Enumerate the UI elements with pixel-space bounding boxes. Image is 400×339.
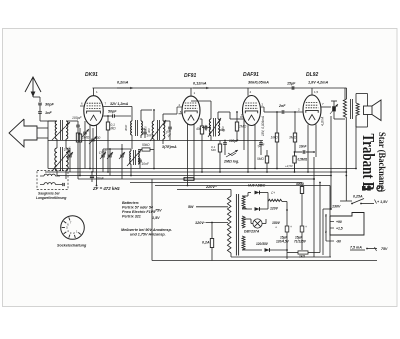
antenna [25,77,41,92]
wire [230,118,244,120]
anode supply rail [93,87,346,89]
AVC wire [211,140,263,142]
output transformer secondary [356,103,359,116]
connector symbols [362,186,366,191]
wire right side [376,249,378,261]
bus wire 2 [45,171,346,173]
wire DAF91 fil b [254,125,256,169]
svg-text:2MΩ log.: 2MΩ log. [223,160,239,164]
svg-text:Pertrix 321: Pertrix 321 [122,215,141,219]
wire DAF91 anode [247,88,249,96]
wire [48,120,57,122]
svg-text:2nF: 2nF [278,104,286,108]
diode D2 [255,207,260,211]
svg-text:4,2mA: 4,2mA [321,117,325,126]
wire [65,170,67,179]
wire [66,120,78,122]
svg-text:1MΩ: 1MΩ [271,136,279,140]
svg-text:50kΩ: 50kΩ [142,143,150,147]
pin 5 [179,113,183,115]
pin 7 DL92 [321,106,331,108]
wire DK91 anode [93,88,95,96]
bus wire 5 [130,182,302,184]
pin 7 wire 32V [103,106,130,108]
wire antenna down [39,97,41,102]
wire battery left [325,214,327,241]
wire speaker top [355,94,357,104]
tube DL92 [303,95,321,125]
svg-text:0,2mA: 0,2mA [117,81,129,85]
resistor 1MΩ out [275,133,278,142]
svg-text:7,5 mA: 7,5 mA [350,246,362,250]
resistor 0,1MΩ det [218,144,221,152]
svg-text:120V~: 120V~ [195,221,207,225]
wire [39,114,41,122]
svg-text:C+: C+ [271,191,275,195]
svg-text:Pneu Electric F1P5: Pneu Electric F1P5 [122,210,156,214]
trimmer arrow T3 [208,118,221,137]
svg-text:75V: 75V [381,247,388,251]
pin 2 wire [103,115,112,117]
capacitor 15µF [291,86,293,90]
wire feed b [329,186,331,258]
pin 7 DAF91 [240,116,243,118]
battery terminal +1,5 [330,227,334,229]
capacitor 10nF g [302,150,304,154]
bus wire 4 [78,178,314,180]
oscillator coil [130,151,131,164]
wire DAF91 fil a [247,125,249,172]
fuse element [184,177,194,180]
svg-text:1,5V: 1,5V [152,216,160,220]
AVC long wire [48,140,211,142]
svg-text:100pF: 100pF [72,116,83,120]
svg-text:5W: 5W [188,205,194,209]
wire DF91 fil a [187,124,189,186]
svg-text:Trabant B: Trabant B [359,134,378,191]
svg-text:130V: 130V [332,205,341,209]
svg-text:DAF91: DAF91 [243,72,259,78]
transformer sec 3 [242,236,245,250]
svg-text:Saugkreis bei: Saugkreis bei [38,192,60,196]
svg-text:30pF: 30pF [45,103,55,107]
svg-text:3MΩ: 3MΩ [289,136,297,140]
transformer core [350,99,352,119]
svg-text:120/35V: 120/35V [256,242,269,246]
svg-text:10nF: 10nF [142,162,150,166]
resistor 0,5MΩ [293,156,296,163]
svg-text:HU8 7,5B/C: HU8 7,5B/C [248,184,266,188]
svg-text:220V~: 220V~ [205,185,218,189]
svg-text:+ 1,5V: + 1,5V [377,200,388,204]
transformer core [235,194,237,256]
svg-text:400Ω: 400Ω [295,182,304,186]
svg-text:0,12mA: 0,12mA [193,82,207,86]
tuning coil L1 [55,121,57,139]
wire DL92 fil a [307,125,309,172]
svg-text:0,2A: 0,2A [202,241,210,245]
svg-text:71/125V: 71/125V [294,240,307,244]
svg-text:5MΩ: 5MΩ [257,157,264,161]
speaker [364,106,373,115]
diode D3 [265,248,270,252]
capacitor 100pF [76,124,80,126]
svg-text:300: 300 [147,128,151,133]
bus wire 3 [57,175,331,177]
wire tone [331,100,337,102]
lamp [253,219,262,228]
trimmer 110pF a [101,154,105,156]
wire DF91 fil b [193,124,195,179]
svg-text:1MΩ: 1MΩ [82,136,90,140]
resistor 400Ω [300,187,303,194]
trimmer 25pF input [68,154,72,156]
capacitor 100pF T2 [168,126,172,128]
resistor 5MΩ [265,156,268,163]
wire DAF91 grid [243,119,245,150]
trimmer cap [83,131,87,133]
diode D1 [255,191,260,195]
vertical tone-bus [330,116,332,209]
svg-text:Langwellenführung: Langwellenführung [36,196,66,200]
tuning coil L2 [55,148,57,170]
resistor surge [268,199,282,201]
svg-text:DBY237A: DBY237A [244,230,260,234]
svg-text:10nF: 10nF [299,145,307,149]
wire transformer [345,87,347,89]
IF transformer T2 [152,121,154,139]
wire [37,127,48,129]
potentiometer 2MΩ log [226,150,238,157]
svg-text:DK91: DK91 [85,72,98,78]
tube DK91 [84,96,103,126]
wire feed a [319,183,321,253]
capacitor T3 in [204,126,206,130]
svg-text:500: 500 [95,136,101,140]
capacitor 1nF [38,111,42,113]
tube socket diagram [61,216,85,240]
tube DAF91 [243,96,261,126]
trimmer arrow T2 [150,120,166,141]
current arrow 0,2mA [117,87,133,89]
capacitor 15µF b [300,226,304,232]
svg-text:1,5: 1,5 [314,90,319,94]
svg-text:abg.: abg. [219,128,226,132]
svg-text:Star (Backnang): Star (Backnang) [377,132,387,192]
wire [131,135,133,149]
wire sec1 top [242,195,248,197]
battery terminal +90 [330,221,334,223]
wire DF91 anode [190,88,192,96]
wire DK91 cathode [89,125,91,169]
IF transformer T3 [209,119,211,136]
wire DL92 anode [311,88,313,95]
svg-text:Batterien:: Batterien: [122,201,140,205]
svg-text:ZF = 472 kHz: ZF = 472 kHz [92,186,121,191]
wire DAF91 anode out [263,107,265,112]
svg-text:Meßwerte bei 90V Anodensp.: Meßwerte bei 90V Anodensp. [121,228,172,232]
transformer primary [227,196,231,253]
junction dots buses [96,185,98,187]
frame antenna arrow [9,119,37,147]
wire feed c [286,202,288,219]
svg-text:4000: 4000 [124,124,128,131]
battery terminal -90 [330,240,334,242]
resistor input [76,133,79,142]
wire osc bottom [130,164,132,176]
svg-text:120/4,5V: 120/4,5V [276,240,290,244]
wire 2nF to grid [285,111,304,113]
output transformer primary [343,99,346,118]
bus wire 6 [155,185,330,187]
variable cap C1 [91,138,95,140]
fuse 0,2A [210,239,213,248]
capacitor 50nF [259,142,263,144]
svg-text:DL92: DL92 [306,72,318,78]
svg-text:-90: -90 [336,240,341,244]
bottom wire b [152,260,377,262]
pin 2 DAF91 [260,106,264,108]
svg-text:15µF: 15µF [287,82,296,86]
capacitor 30pF [38,102,42,104]
resistor 40k [200,126,203,134]
capacitor 2nF [281,110,283,114]
wire osc top [103,148,131,150]
wire sec1 bottom [242,207,246,209]
svg-text:+1,5: +1,5 [336,227,343,231]
pin 2 [177,106,182,108]
saugkreis box [37,171,68,190]
trimmer 25pF [120,154,124,156]
current arrow 0,12mA [193,87,209,89]
capacitor 15µF a [285,226,289,232]
svg-text:20nF: 20nF [95,177,105,181]
vertical transformer-bus [345,118,347,201]
wire [39,105,41,111]
wire [140,110,142,121]
svg-text:MΩ: MΩ [111,126,117,130]
svg-text:0,5MΩ: 0,5MΩ [298,158,308,162]
wire [162,114,164,121]
vertical speaker-bus [355,116,357,169]
wire DL92 fil b [315,124,317,157]
resistor 1MΩ [78,134,81,142]
resistor 0,1MΩ [106,122,109,130]
svg-text:0,25A: 0,25A [353,195,363,199]
transformer sec 2 [242,216,245,228]
svg-text:150V: 150V [272,221,281,225]
svg-text:Pertrix 57 oder 54: Pertrix 57 oder 54 [122,206,153,210]
wire [217,112,219,119]
svg-text:1,8V 4,2mA: 1,8V 4,2mA [308,81,329,85]
saugkreis coil 1 [44,174,55,176]
svg-text:+: + [290,225,292,229]
svg-text:100pF: 100pF [229,139,239,143]
trimmer arrow L1 [52,122,70,140]
wire T3 top [210,101,212,119]
bus wire 1 [48,168,356,170]
svg-text:+4,5V: +4,5V [285,164,294,168]
svg-text:50pF: 50pF [108,110,117,114]
svg-text:30k/0,05mA: 30k/0,05mA [248,81,269,85]
wire T3 bot [210,136,212,141]
wire DK91 fil [96,125,98,185]
vertical DL92-bottom [313,157,315,257]
svg-text:4000: 4000 [204,124,208,131]
svg-text:+: + [305,225,307,229]
wire 240 [241,196,243,250]
capacitor 1nF T1 [143,131,147,133]
capacitor 20nF [90,175,94,177]
svg-text:1nF: 1nF [45,111,52,115]
resistor 1kΩ [298,251,308,254]
svg-text:75V: 75V [155,209,162,213]
capacitor 50pF [112,114,114,117]
svg-text:18V, 0,004mA: 18V, 0,004mA [261,116,265,136]
IF transformer T1 [131,121,132,135]
capacitor 100pF det [223,142,227,144]
svg-text:+90: +90 [336,220,342,224]
tone capacitor [332,106,336,111]
trimmer arrow L2 [52,150,70,171]
svg-text:DF91: DF91 [184,73,196,79]
svg-text:120V: 120V [270,207,279,211]
svg-text:32V 1,2mA: 32V 1,2mA [110,102,129,106]
capacitor 10nF osc [138,159,142,161]
svg-text:3(7E)mA: 3(7E)mA [162,145,177,149]
svg-text:40k: 40k [196,127,202,131]
trimmer 110pF b [108,154,112,156]
transformer sec 1 [242,196,245,208]
wire [153,110,155,121]
wire rail to transformer [344,88,346,99]
wire [153,139,155,169]
wire [131,107,133,122]
svg-text:1kΩ: 1kΩ [299,255,306,259]
saugkreis coil 2 [44,183,55,185]
wire 5W [196,206,228,208]
pin 6 [80,105,84,107]
resistor 50kΩ [142,148,150,151]
svg-text:2MΩ: 2MΩ [238,125,247,129]
wire [93,87,95,89]
tube DF91 [182,96,200,125]
svg-text:+: + [275,226,277,230]
wire 220V [177,189,228,191]
svg-text:und 1,75V Heizansp.: und 1,75V Heizansp. [130,233,166,237]
battery box [330,213,364,236]
resistor 3MΩ [293,133,296,142]
svg-text:MΩ: MΩ [211,148,216,152]
wire [65,139,67,148]
resistor 2MΩ [235,122,238,131]
svg-text:Sockelschaltung: Sockelschaltung [57,244,87,248]
wire 120V [206,222,228,224]
bottom wire a [231,256,331,258]
terminal 1,5V [374,200,377,202]
wire speaker bottom [355,116,357,128]
